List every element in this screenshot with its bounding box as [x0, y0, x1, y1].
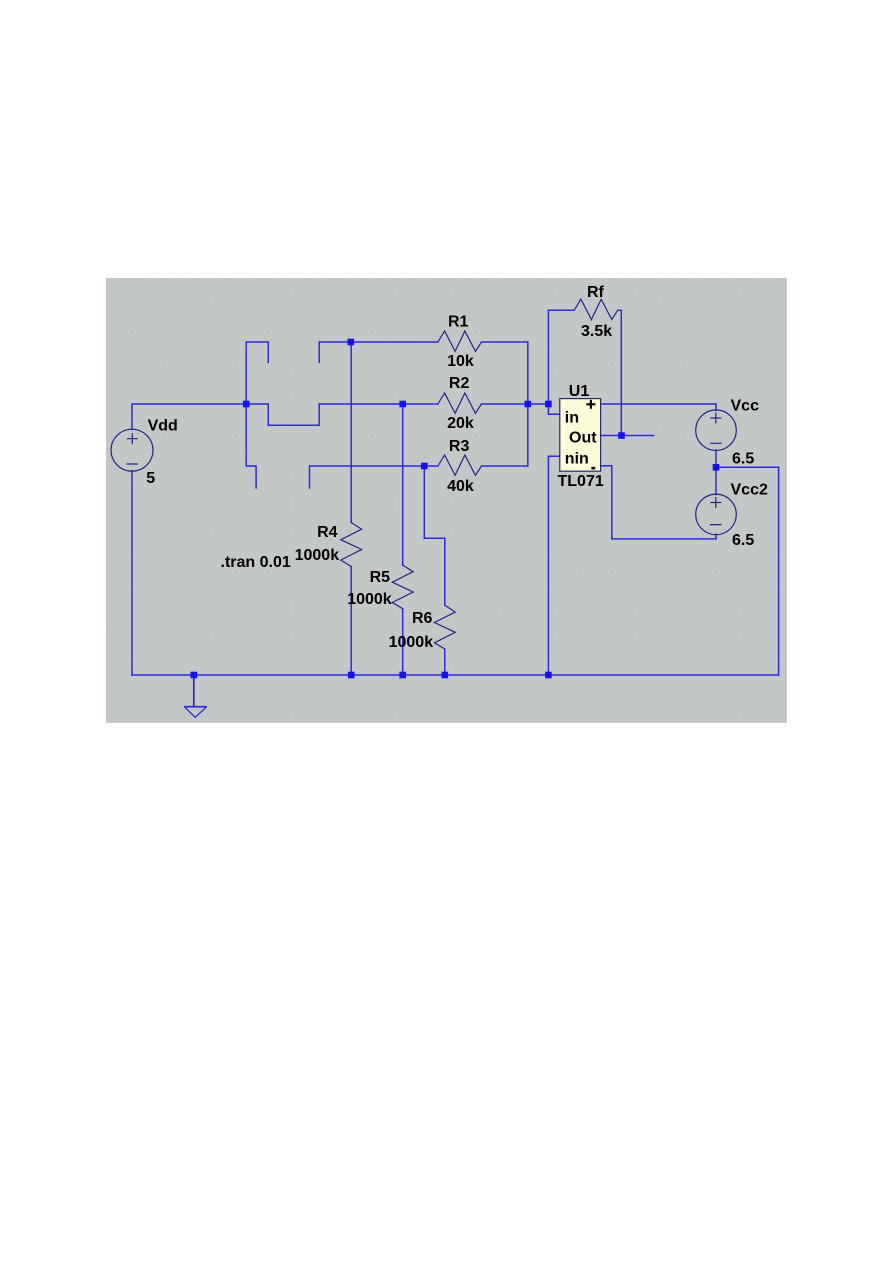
source Vdd circle [111, 429, 153, 471]
svg-text:Rf: Rf [587, 284, 605, 301]
wire R2 row left segment [319, 403, 438, 405]
node R3 row / vertical C [421, 463, 428, 470]
svg-text:R6: R6 [412, 610, 433, 627]
node R4 on rail [348, 672, 355, 679]
svg-text:40k: 40k [447, 478, 474, 495]
svg-text:Out: Out [569, 430, 597, 447]
svg-text:TL071: TL071 [558, 473, 604, 490]
node squares [191, 339, 720, 679]
wire stub bracket top-left [246, 342, 268, 488]
svg-text:10k: 10k [447, 353, 474, 370]
wire vertical B lower (R5 to rail) [402, 609, 404, 675]
node R2 row / vertical B [399, 401, 406, 408]
node Vcc/Vcc2 junction [713, 464, 720, 471]
source Vcc circle [696, 410, 737, 451]
wire R1 row left [351, 341, 438, 343]
svg-text:R5: R5 [370, 569, 391, 586]
wire nin pin to rail [548, 456, 559, 675]
svg-text:6.5: 6.5 [732, 450, 754, 467]
svg-text:R1: R1 [448, 313, 469, 330]
wire Out stub [600, 435, 653, 437]
wire stub bracket top-mid [319, 342, 351, 362]
node R6 on rail [442, 672, 449, 679]
svg-text:1000k: 1000k [389, 634, 434, 651]
op-amp plus supply mark [586, 400, 595, 409]
resistor R5 body [392, 565, 413, 609]
wire Vcc bottom stub [715, 450, 717, 467]
wire jog down on R2 row [268, 404, 319, 425]
wire bottom ground rail [132, 674, 779, 676]
ground [184, 675, 206, 717]
svg-text:R3: R3 [449, 438, 470, 455]
svg-text:1000k: 1000k [295, 547, 340, 564]
svg-text:Vcc: Vcc [731, 398, 760, 415]
svg-text:20k: 20k [447, 415, 474, 432]
wire opamp minus supply to Vcc2 bottom [600, 466, 716, 539]
wire vertical C with jog (R3 node to R6) [424, 466, 445, 605]
node R5 on rail [399, 672, 406, 679]
wire right riser to Vcc node [716, 467, 779, 675]
wire R3 row left with stub [310, 466, 438, 488]
op-amp minus supply mark [591, 467, 595, 470]
schematic gray panel [106, 278, 787, 723]
resistor R4 body [341, 523, 362, 567]
svg-text:nin: nin [565, 451, 589, 468]
svg-text:Vcc2: Vcc2 [731, 482, 768, 499]
node ground on rail [191, 672, 198, 679]
wire Rf right vertical to Out node [618, 310, 622, 435]
wire in pin [548, 404, 559, 414]
svg-text:in: in [565, 409, 579, 426]
node nin on rail [545, 672, 552, 679]
wire R1 right + vertical to R3 right [482, 342, 528, 466]
svg-text:1000k: 1000k [347, 591, 392, 608]
node Out [618, 432, 625, 439]
resistor R3 body [438, 455, 482, 475]
resistor R1 body [438, 331, 482, 351]
op-amp U1 body [560, 399, 601, 472]
svg-text:5: 5 [146, 470, 155, 487]
wire Rf left vertical [548, 310, 574, 404]
wire vertical B upper (R2 node to R5) [402, 404, 404, 565]
svg-text:6.5: 6.5 [732, 532, 754, 549]
wire Vcc top stub [715, 404, 717, 410]
wire Vcc2 top stub [715, 467, 717, 494]
wire vertical A lower (R4 to rail) [350, 567, 352, 676]
resistor Rf body [574, 299, 618, 319]
svg-text:R4: R4 [317, 524, 338, 541]
source Vcc2 circle [696, 494, 737, 535]
wire R6 to rail [444, 649, 446, 675]
wire Vdd bottom to rail [131, 471, 133, 675]
wire opamp plus supply to Vcc [600, 403, 716, 405]
node R1 row / vertical A [348, 339, 355, 346]
svg-text:Vdd: Vdd [148, 418, 178, 435]
svg-text:3.5k: 3.5k [581, 323, 612, 340]
svg-text:R2: R2 [449, 375, 470, 392]
wire Vdd top to R2 row [132, 404, 268, 429]
resistor R2 body [438, 393, 482, 413]
wire R2 row right segment [482, 403, 549, 405]
resistor R6 body [434, 605, 455, 649]
svg-text:.tran 0.01: .tran 0.01 [221, 554, 291, 571]
node Vdd/R2 junction [243, 401, 250, 408]
wire vertical A upper (node to R4) [350, 342, 352, 523]
node R1R2R3 common riser [525, 401, 532, 408]
svg-text:U1: U1 [569, 383, 590, 400]
node opamp in junction [545, 401, 552, 408]
